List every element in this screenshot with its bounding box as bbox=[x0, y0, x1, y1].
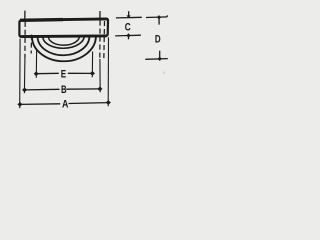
svg-text:D: D bbox=[155, 34, 161, 46]
svg-text:E: E bbox=[61, 69, 66, 81]
svg-text:A: A bbox=[62, 99, 68, 111]
svg-text:B: B bbox=[61, 84, 67, 96]
svg-text:C: C bbox=[125, 21, 131, 33]
